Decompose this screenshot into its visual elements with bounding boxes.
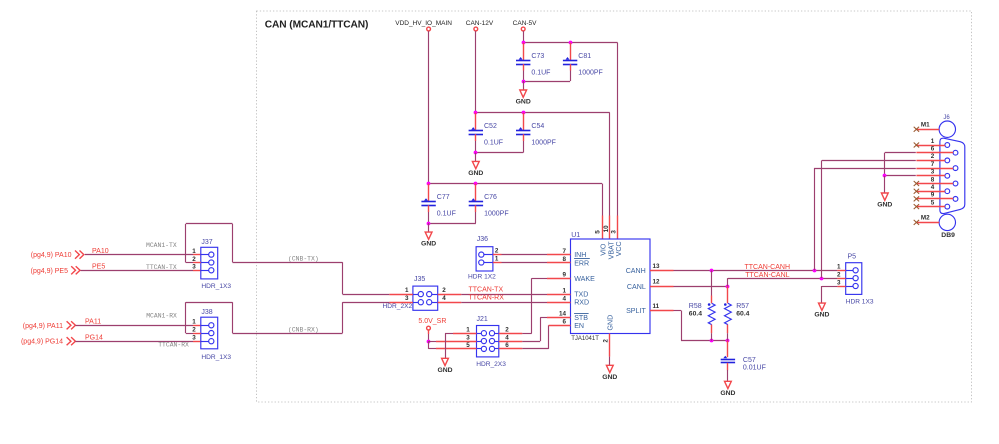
svg-text:3: 3 [931,169,935,176]
svg-text:RXD: RXD [574,299,589,307]
power symbol VDD_HV_IO_MAIN [427,27,431,31]
chevron PA11 [67,321,76,329]
svg-text:J21: J21 [477,316,488,323]
node CANH at DB9 branch [813,269,817,273]
svg-text:MCAN1-RX: MCAN1-RX [146,313,177,320]
svg-text:60.4: 60.4 [736,311,749,318]
J6 pin 7 circle [953,166,958,171]
svg-text:M2: M2 [921,215,930,222]
wire (CNB-TX) down to J35 pin1 [342,262,344,294]
wire C77 top stub [428,184,430,202]
wire net (CNB-TX) [233,262,343,264]
svg-text:2: 2 [837,271,841,278]
svg-text:9: 9 [562,272,566,279]
svg-text:1: 1 [495,256,499,263]
wire VCC drop to U1 pin3 [617,43,619,216]
svg-text:7: 7 [931,161,935,168]
wire PA11 to J38 pin1 [76,325,194,327]
wire J35 pin2 to U1 TXD net TTCAN-TX [438,294,462,296]
connector J38 body [201,317,218,349]
wire U1 CANH pin13 [650,270,674,272]
wire group2 gnd drop [475,153,477,162]
svg-text:13: 13 [653,263,661,270]
node CAN-5V at C73 [522,41,526,45]
wire group3 gnd drop [428,223,430,232]
wire PA10 to J37 pin1 [85,254,193,256]
svg-text:2: 2 [505,327,509,334]
J6 pin 7 stub [916,168,953,170]
wire group1 ground rail [523,81,570,83]
op-amp U1 TJA1041T body [571,239,651,334]
wire J35 pin4 to U1 RXD net TTCAN-RX [438,302,462,304]
svg-text:14: 14 [559,311,567,318]
wire J37 pin2 bridge over body [186,262,193,264]
svg-text:J35: J35 [414,276,425,283]
wire C81 bottom stub [570,64,572,70]
svg-text:3: 3 [466,334,470,341]
J6 pin 5 circle [945,204,950,209]
svg-text:0.1UF: 0.1UF [531,69,550,76]
J6 pin 1 circle [945,143,950,148]
wire DB9 pin2 to CANL [821,160,823,278]
connector J35 body [413,286,438,310]
J6 pin 3 circle [945,173,950,178]
svg-text:VCC: VCC [615,241,623,256]
J35 pin 1 circle [418,292,423,297]
svg-text:1: 1 [837,264,841,271]
J6 pin 6 circle [953,150,958,155]
power symbol CAN-5V [521,27,525,31]
node CAN-12V at C52 [474,111,478,115]
wire R57 bottom to C57 [727,341,729,358]
wire J21 pin1 to ground [453,333,477,335]
svg-text:TXD: TXD [574,291,588,299]
svg-text:2: 2 [931,153,935,160]
chevron PE5 [71,266,80,274]
power symbol CAN-12V [474,27,478,31]
svg-text:1: 1 [192,248,196,255]
svg-text:1000PF: 1000PF [578,69,603,76]
wire 5.0V_SR to J21 pin5 [428,341,430,349]
J38 pin 3 circle [209,339,214,344]
wire J36 pin1 to U1 ERR [493,262,502,264]
svg-text:9: 9 [931,192,935,199]
svg-text:GND: GND [607,315,615,331]
svg-text:WAKE: WAKE [574,275,595,283]
svg-text:R57: R57 [736,303,749,310]
svg-text:U1: U1 [571,232,580,239]
ground below U1 [606,365,613,372]
wire J21 pin4 to U1 STB [499,341,523,343]
resistor R58 [708,303,715,324]
wire J36 pin2 to U1 INH [493,254,502,256]
wire CANL jog up [727,278,729,286]
wire 5.0V_SR to J21 pin3 [429,341,437,343]
svg-text:C76: C76 [484,194,497,201]
svg-text:TTCAN-TX: TTCAN-TX [146,264,177,271]
J6 pin M1 stub [916,129,939,131]
wire group3 ground rail [429,223,476,225]
svg-text:TTCAN-TX: TTCAN-TX [469,287,504,294]
svg-text:4: 4 [562,295,566,302]
resistor R57 [724,303,731,324]
no-connect X at pin 5 [914,204,919,209]
node group3 ground junction [427,222,431,226]
node group1 ground junction [522,80,526,84]
wire J37 pin2 stub [193,262,201,264]
svg-text:PE5: PE5 [92,264,105,271]
svg-text:GND: GND [437,367,452,374]
resistor R57 bottom stub [727,325,729,334]
svg-text:3: 3 [192,264,196,271]
node VDD rail at C77 [427,182,431,186]
svg-text:1: 1 [931,138,935,145]
J35 pin 3 circle [418,300,423,305]
wire P5 pin3 to ground [837,286,845,288]
svg-text:GND: GND [421,241,436,248]
svg-text:ERR: ERR [574,259,589,267]
svg-text:CANL: CANL [627,283,646,291]
wire P5 pin2 stub [837,278,845,280]
wire C52 top stub [475,113,477,131]
resistor R58 top stub [711,270,713,295]
svg-text:1: 1 [562,287,566,294]
U1 GND pin stub [609,334,611,357]
svg-text:2: 2 [192,256,196,263]
svg-text:60.4: 60.4 [689,311,702,318]
wire group2 ground rail [476,152,523,154]
connector J21 body [477,326,499,357]
wire P5 pin1 stub [837,270,845,272]
svg-text:VIO: VIO [600,243,608,256]
wire J38 pin2 bridge over body [186,333,193,335]
J35 pin 2 circle [427,292,432,297]
svg-text:GND: GND [720,390,735,397]
wire U1 SPLIT pin11 [650,310,674,312]
no-connect X at pin 8 [914,181,919,186]
svg-text:(pg4,9) PE5: (pg4,9) PE5 [31,268,68,275]
node CANL at DB9 branch [820,277,824,281]
svg-text:STB: STB [574,314,588,322]
wire J21 pin2 to U1 WAKE [499,333,523,335]
J37 pin 3 circle [209,268,214,273]
wire C73 top stub [523,43,525,61]
capacitor C57 [721,356,735,363]
J6 pin 9 circle [953,197,958,202]
wire CAN-5V vertical [523,31,525,42]
svg-text:J6: J6 [943,115,950,121]
wire C54 top stub [523,113,525,131]
ground at DB9 [881,193,888,200]
capacitor C52 [469,127,483,134]
wire DB9 pin3 to ground junction [885,175,916,177]
svg-text:2: 2 [442,287,446,294]
J6 pin M2 stub [916,222,939,224]
wire PE5 to J37 pin3 [81,270,194,272]
svg-text:8: 8 [931,176,935,183]
wire (CNB-RX) up to J35 pin3 [342,302,344,333]
node CANH at R58 [710,269,714,273]
wire C54 bottom stub [523,134,525,141]
svg-text:SPLIT: SPLIT [626,307,646,315]
ground below C57 [725,381,732,388]
node split rail at R58 [710,339,714,343]
svg-text:6: 6 [562,319,566,326]
svg-text:5: 5 [931,199,935,206]
svg-text:C52: C52 [484,123,497,130]
J21 pin 1 circle [481,331,486,336]
node CAN-12V at C54 [522,111,526,115]
svg-text:HDR 1X2: HDR 1X2 [468,274,496,281]
wire DB9 pin7 to CANH [814,168,816,270]
P5 pin 3 circle [853,283,858,288]
resistor R57 top stub [727,286,729,295]
connector P5 body [846,263,862,295]
node DB9 ground junction [883,174,887,178]
svg-text:HDR_2X2: HDR_2X2 [383,303,413,310]
svg-text:2: 2 [495,248,499,255]
wire VIO drop to U1 pin5 [602,184,604,216]
no-connect X at M1 [914,127,919,132]
svg-text:8: 8 [562,256,566,263]
svg-text:(pg4,9) PG14: (pg4,9) PG14 [21,339,63,346]
J6 pin 6 stub [916,152,953,154]
svg-text:10: 10 [603,225,610,233]
wire CAN-12V rail to VBAT [476,112,610,114]
wire C77 bottom stub [428,205,430,212]
ground at P5 pin3 [819,303,826,310]
wire C73 bottom stub [523,64,525,70]
wire C57 bottom [727,363,729,370]
svg-text:C81: C81 [578,53,591,60]
wire 5.0V_SR down [428,330,430,334]
svg-text:GND: GND [516,99,531,106]
J21 pin 6 circle [489,346,494,351]
svg-text:MCAN1-TX: MCAN1-TX [146,242,177,249]
svg-text:C77: C77 [437,194,450,201]
wire J35 pin1 stub [389,294,413,296]
J6 pin 4 circle [945,189,950,194]
svg-text:3: 3 [837,279,841,286]
svg-text:TTCAN-CANL: TTCAN-CANL [745,272,789,279]
svg-text:J36: J36 [477,236,488,243]
svg-text:2: 2 [192,326,196,333]
J6 pin 4 stub [916,191,945,193]
svg-text:CAN (MCAN1/TTCAN): CAN (MCAN1/TTCAN) [265,19,369,30]
wire DB9 ground drop [884,176,886,193]
svg-text:TTCAN-RX: TTCAN-RX [469,295,505,302]
svg-text:6: 6 [931,146,935,153]
J37 pin 1 circle [209,252,214,257]
wire C81 top stub [570,43,572,61]
svg-text:INH: INH [574,251,586,259]
connector J6 DB9 shell M1 circle [939,121,955,137]
svg-text:0.01UF: 0.01UF [743,365,766,372]
capacitor C73 [516,57,530,65]
J36 pin 1 circle [479,260,484,265]
svg-text:J38: J38 [201,309,212,316]
wire C76 bottom stub [475,205,477,212]
svg-text:PG14: PG14 [85,334,103,341]
svg-text:J37: J37 [201,239,212,246]
node group2 ground junction [474,151,478,155]
svg-text:(pg4,9) PA10: (pg4,9) PA10 [31,252,72,259]
svg-text:3: 3 [405,295,409,302]
connector J36 body [476,247,493,271]
J6 pin 8 stub [916,183,953,185]
J21 pin 3 circle [481,338,486,343]
wire VDD_HV_IO_MAIN vertical [428,31,430,184]
J21 pin 5 circle [481,346,486,351]
J6 pin 2 circle [945,158,950,163]
svg-text:1: 1 [192,319,196,326]
J6 pin 5 stub [916,206,945,208]
svg-text:11: 11 [653,303,660,310]
wire J21 pin6 to U1 EN [499,348,523,350]
svg-text:HDR_2X3: HDR_2X3 [476,361,506,368]
ground below C73 [520,90,527,97]
wire U1 CANL pin12 [650,286,674,288]
chevron PA10 [75,251,84,259]
svg-text:1: 1 [405,287,409,294]
wire DB9 pin7 net [814,168,916,170]
wire VBAT drop to U1 pin10 [609,113,611,216]
node CAN-5V at C81 [569,41,573,45]
wire J35 pin3 stub [389,302,413,304]
svg-text:GND: GND [877,202,892,209]
svg-text:5: 5 [594,230,601,234]
P5 pin 2 circle [853,276,858,281]
svg-text:CAN-12V: CAN-12V [466,20,494,27]
capacitor C77 [421,198,435,205]
svg-text:3: 3 [192,335,196,342]
capacitor C54 [516,127,530,134]
svg-text:GND: GND [468,170,483,177]
chevron PG14 [67,337,76,345]
wire group1 gnd drop [523,81,525,90]
power symbol 5.0V_SR [427,326,431,330]
svg-text:C73: C73 [531,53,544,60]
svg-text:VDD_HV_IO_MAIN: VDD_HV_IO_MAIN [395,20,452,27]
svg-text:3: 3 [611,230,618,234]
connector J37 body [201,247,218,279]
svg-text:1000PF: 1000PF [531,140,556,147]
svg-text:HDR_1X3: HDR_1X3 [201,283,231,290]
wire net (CNB-RX) [233,333,343,335]
node split rail at R57 [726,339,730,343]
svg-text:PA11: PA11 [85,319,101,326]
J37 pin 2 circle [209,260,214,265]
svg-text:(CNB-TX): (CNB-TX) [288,255,319,262]
J38 pin 1 circle [209,323,214,328]
no-connect X at pin 4 [914,189,919,194]
ground below C77 [425,232,432,239]
capacitor C76 [469,198,483,205]
svg-text:1000PF: 1000PF [484,211,509,218]
svg-text:DB9: DB9 [941,232,955,239]
svg-text:CAN-5V: CAN-5V [513,20,538,27]
schematic frame border [257,11,972,402]
wire DB9 pin2 net [822,160,916,162]
svg-text:2: 2 [603,339,610,343]
resistor R58 bottom stub [711,325,713,334]
J6 pin 2 stub [916,160,945,162]
wire VDD_HV_IO_MAIN rail to VIO [429,183,602,185]
no-connect X at M2 [914,220,919,225]
ground at J21 pin1 [442,358,449,365]
svg-text:TTCAN-CANH: TTCAN-CANH [745,264,791,271]
svg-text:R58: R58 [689,303,702,310]
wire DB9 pin6 to ground junction [885,152,916,154]
svg-text:C54: C54 [531,123,544,130]
svg-text:VBAT: VBAT [607,241,615,260]
node 5.0V_SR junction [427,340,431,344]
ground below C52 [472,161,479,168]
svg-text:TTCAN-RX: TTCAN-RX [158,341,189,348]
no-connect X at pin 1 [914,143,919,148]
svg-text:P5: P5 [848,254,857,261]
wire J38 pin2 stub [193,333,201,335]
wire split rail [712,340,728,342]
J38 pin 2 circle [209,331,214,336]
svg-text:HDR 1X3: HDR 1X3 [846,298,874,305]
svg-text:5.0V_SR: 5.0V_SR [418,318,446,325]
svg-text:CANH: CANH [626,267,646,275]
no-connect X at pin 9 [914,196,919,201]
svg-text:HDR_1X3: HDR_1X3 [201,354,231,361]
svg-text:1: 1 [466,327,470,334]
J21 pin 2 circle [489,331,494,336]
J21 pin 4 circle [489,338,494,343]
svg-text:GND: GND [814,312,829,319]
J6 pin 3 stub [916,175,945,177]
svg-text:4: 4 [505,334,509,341]
wire C52 bottom stub [475,134,477,141]
connector J6 DB9 shell M2 circle [939,214,955,230]
connector J6 DB9 body [940,138,965,213]
svg-text:C57: C57 [743,357,756,364]
svg-text:12: 12 [653,279,661,286]
wire CAN-5V rail to VCC [523,42,617,44]
svg-text:M1: M1 [921,122,930,129]
J6 pin 8 circle [953,181,958,186]
svg-text:GND: GND [602,374,617,381]
wire C76 top stub [475,184,477,202]
P5 pin 1 circle [853,268,858,273]
svg-text:0.1UF: 0.1UF [484,140,503,147]
wire PG14 to J38 pin3 [76,341,194,343]
svg-text:(CNB-RX): (CNB-RX) [288,326,319,333]
node CANL at R57 [726,285,730,289]
J35 pin 4 circle [427,300,432,305]
svg-text:TJA1041T: TJA1041T [571,336,599,342]
J6 pin 1 stub [916,145,945,147]
svg-text:(pg4,9) PA11: (pg4,9) PA11 [23,323,63,330]
svg-text:4: 4 [442,295,446,302]
svg-text:EN: EN [574,322,584,330]
node VDD rail at C76 [474,182,478,186]
svg-text:4: 4 [931,184,935,191]
J6 pin 9 stub [916,198,953,200]
svg-text:0.1UF: 0.1UF [437,211,456,218]
J36 pin 2 circle [479,252,484,257]
wire CAN-12V vertical [475,31,477,113]
capacitor C81 [563,57,577,65]
